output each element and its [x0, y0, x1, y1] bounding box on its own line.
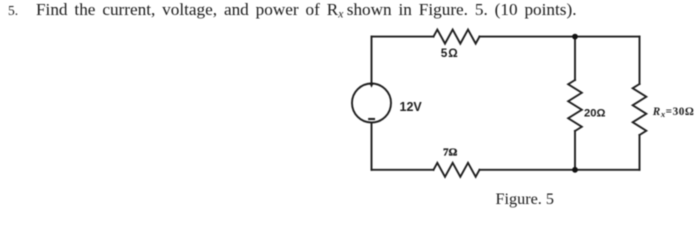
wire left edge top lead into source [371, 37, 373, 84]
voltage source V1 circle [352, 84, 391, 123]
source wire arrowhead tip [369, 83, 374, 88]
problem number 5. [8, 3, 18, 19]
problem statement text [36, 0, 577, 21]
wire bottom-right segment [480, 169, 640, 171]
svg-text:12V: 12V [400, 100, 423, 114]
caption Figure. 5 [496, 190, 554, 209]
wire top-left segment [372, 36, 434, 38]
resistor R 5ohm zigzag [434, 30, 480, 44]
wire middle branch top lead [574, 37, 576, 80]
svg-text:20Ω: 20Ω [584, 108, 605, 120]
wire right edge bottom lead [639, 135, 641, 170]
wire middle branch bottom lead [574, 131, 576, 170]
wire bottom-left segment [372, 169, 434, 171]
minus sign of source [369, 118, 374, 120]
node junction dot top [572, 34, 578, 40]
svg-text:7Ω: 7Ω [443, 147, 458, 159]
resistor Rx 30ohm zigzag [633, 84, 647, 135]
resistor R 20ohm zigzag [568, 80, 582, 131]
resistor R 7ohm zigzag [434, 163, 480, 177]
svg-text:5Ω: 5Ω [441, 46, 459, 60]
wire left edge bottom lead [371, 123, 373, 170]
node junction dot bottom [572, 167, 578, 173]
svg-text:Rx=30Ω: Rx=30Ω [652, 106, 695, 119]
wire right edge top lead [639, 37, 641, 84]
wire top-right segment [480, 36, 640, 38]
